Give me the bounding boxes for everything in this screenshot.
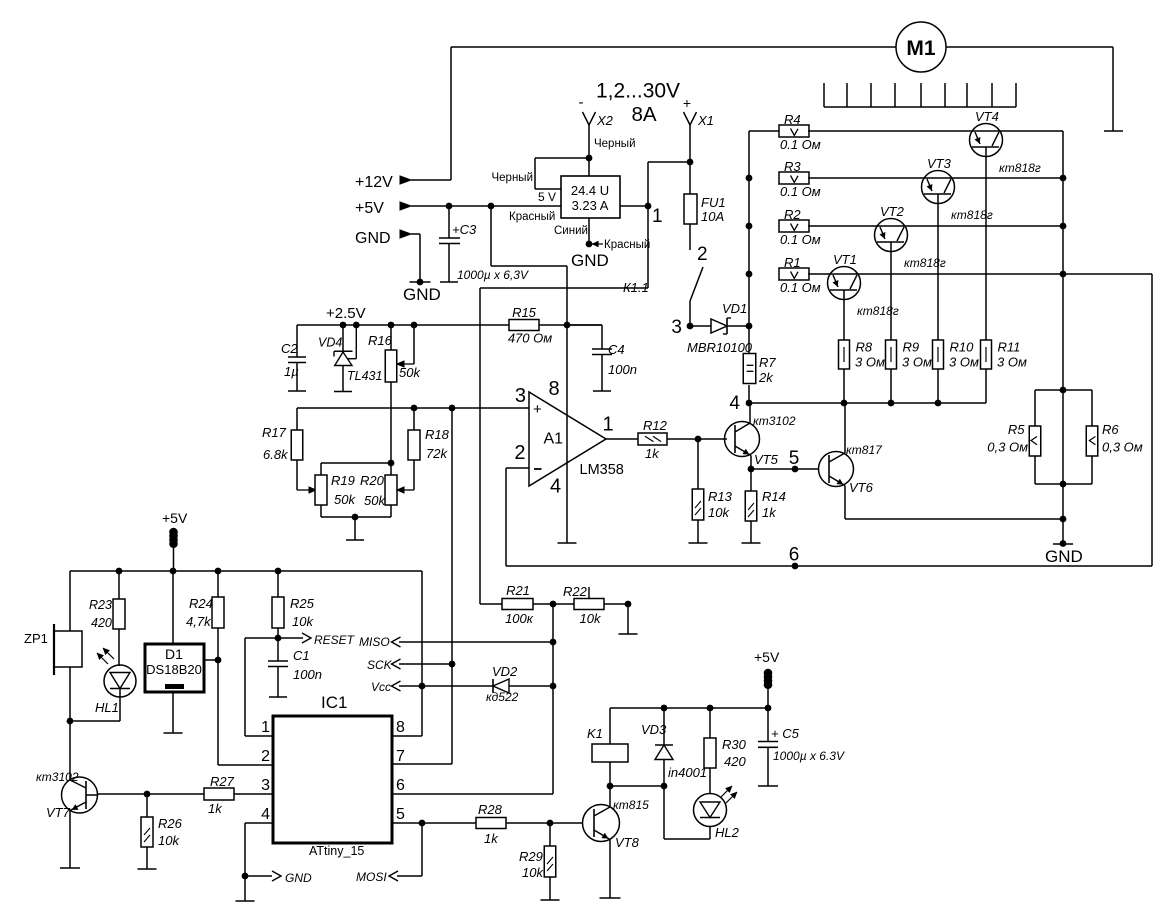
junction X2/black jumper: [586, 155, 593, 162]
svg-text:10k: 10k: [158, 833, 180, 848]
node 5 marker: [792, 466, 799, 473]
transistor VT4 кт818г: [970, 124, 1003, 157]
label C2 value: [284, 364, 299, 379]
buzzer ZP1: [54, 624, 82, 675]
label R26 value 10k: [158, 833, 180, 848]
label 5 V pin: [538, 190, 556, 204]
wire: R21 feed: [480, 603, 502, 605]
motor M1: [896, 22, 946, 72]
label MBR10100: [687, 340, 753, 355]
label R20: [360, 473, 385, 488]
wire: base bus node 4: [749, 402, 986, 404]
label R25: [290, 596, 315, 611]
svg-text:4,7k: 4,7k: [186, 614, 212, 629]
label R26: [158, 816, 183, 831]
wire: node1 riser to X1 top: [648, 162, 690, 206]
svg-text:SCK: SCK: [367, 658, 393, 672]
zener VD4 TL431: [334, 325, 356, 391]
label R4: [784, 112, 801, 127]
ground IC1: [236, 900, 255, 902]
svg-text:GND: GND: [571, 251, 609, 270]
label R3 value 0.1 Ом: [780, 184, 821, 199]
label R24: [189, 596, 213, 611]
junction R28/R29: [547, 820, 554, 827]
wire: R19/R20 top bus: [321, 462, 391, 464]
label R17: [262, 425, 287, 440]
resistor R3 0.1 Ом: [779, 172, 809, 184]
op-amp pin 8 label: [549, 378, 560, 400]
junction rail R24: [215, 568, 222, 575]
junction rail VD4: [340, 322, 347, 329]
node 3 label: [671, 317, 682, 338]
wire: R5/R6 parallel loop bottom: [1035, 456, 1092, 484]
resistor R30 420: [704, 708, 716, 794]
junction pin8 node: [564, 322, 571, 329]
svg-text:1k: 1k: [484, 831, 499, 846]
svg-text:R23: R23: [89, 598, 112, 612]
chassis tab (dead-end bar): [1104, 130, 1123, 132]
svg-text:R8: R8: [856, 340, 873, 355]
svg-text:1k: 1k: [762, 505, 777, 520]
ground R29: [541, 899, 560, 901]
svg-text:8: 8: [396, 719, 405, 736]
label GND under PSU: [571, 251, 609, 270]
junction rail D1: [170, 568, 177, 575]
svg-text:Красный: Красный: [509, 211, 555, 223]
label +5V: [355, 200, 384, 217]
svg-text:LM358: LM358: [580, 462, 624, 478]
inductor bead +5V relay: [764, 669, 773, 708]
ground right bus: [1053, 540, 1073, 547]
junction R13: [695, 436, 702, 443]
svg-text:+5V: +5V: [162, 510, 188, 526]
label C1: [293, 648, 310, 663]
svg-text:ATtiny_15: ATtiny_15: [309, 844, 364, 858]
label C2: [281, 341, 298, 356]
svg-text:Vcc: Vcc: [371, 680, 391, 694]
junction pin4 gnd: [242, 873, 249, 880]
fuse FU1: [684, 194, 697, 224]
resistor R15 470 Ом: [509, 320, 539, 331]
svg-text:3 Ом: 3 Ом: [855, 355, 885, 370]
junction blue-gnd: [586, 241, 593, 248]
wire: relay +5V rail: [610, 707, 768, 709]
wire: left emitter bus (R1-R4): [749, 131, 779, 326]
svg-text:10A: 10A: [701, 209, 724, 224]
label R15 value 470 Ом: [508, 331, 552, 346]
wire: VT3 row: [808, 177, 1063, 179]
svg-text:+12V: +12V: [355, 174, 393, 191]
svg-text:0.1 Ом: 0.1 Ом: [780, 232, 821, 247]
wire: black jumper to 5V sense pin: [535, 158, 589, 189]
resistor R26 10k: [141, 794, 153, 869]
label R25 value 10k: [292, 614, 314, 629]
LED HL2: [694, 786, 738, 827]
svg-text:R7: R7: [759, 355, 776, 370]
terminal X1 (+): [683, 95, 714, 128]
wire: +5V riser to LM358 pin 8 node: [491, 206, 567, 325]
wire: R27 to IC1 pin 3: [234, 793, 273, 795]
svg-text:VT3: VT3: [927, 156, 952, 171]
capacitor C4 100n: [567, 325, 612, 391]
wire: VT1 row: [808, 273, 1063, 275]
label R23: [89, 598, 112, 612]
label R16: [368, 333, 393, 348]
transistor VT7 кт3102: [62, 721, 98, 868]
label R11 value 3 Ом: [997, 355, 1027, 370]
ground VT7: [60, 867, 80, 869]
wire: VT6 emitter to GND node: [845, 518, 1063, 520]
wire: feedback bus node 6: [506, 565, 1152, 567]
junction rail TL431 ref: [353, 322, 360, 329]
svg-text:X1: X1: [697, 113, 714, 128]
svg-text:MOSI: MOSI: [356, 870, 387, 884]
ground VT8: [600, 897, 621, 899]
junction rail VD3: [661, 705, 668, 712]
label VT1: [833, 252, 857, 267]
wire: IC1 pin 8 to +5V riser: [392, 571, 422, 736]
label MISO: [359, 635, 390, 649]
label C3 value: [457, 268, 529, 282]
label R4 value 0.1 Ом: [780, 137, 821, 152]
svg-text:K1: K1: [587, 726, 603, 741]
resistor R1 0.1 Ом: [779, 268, 809, 280]
wire: VT2 row: [808, 225, 1063, 227]
wire: D1 data to R24: [204, 659, 218, 661]
svg-text:1: 1: [261, 719, 270, 736]
svg-text:R16: R16: [368, 333, 393, 348]
svg-text:10k: 10k: [292, 614, 314, 629]
junction rail R25: [275, 568, 282, 575]
svg-text:+ C5: + C5: [771, 726, 800, 741]
label R15: [512, 305, 537, 320]
svg-text:GND: GND: [355, 230, 391, 247]
ground C4: [593, 390, 611, 392]
label R22 value 10k: [580, 611, 602, 626]
svg-text:1µ: 1µ: [284, 364, 299, 379]
junction rail R30: [707, 705, 714, 712]
wire: VD1 cathode to left bus: [727, 325, 749, 327]
svg-text:-: -: [579, 94, 584, 111]
transistor VT3 кт818г: [922, 171, 955, 204]
label 8A: [631, 103, 656, 126]
svg-text:VD1: VD1: [722, 301, 747, 316]
label R6: [1102, 422, 1119, 437]
wire: VD3/HL2 return: [664, 786, 710, 839]
label кт815: [613, 798, 649, 812]
svg-text:10k: 10k: [708, 505, 730, 520]
junction right bus R2 row: [1060, 223, 1067, 230]
wire: MOSI arrow: [389, 823, 422, 881]
resistor R24 4,7k: [212, 571, 224, 660]
wire: VT7 base to R27: [98, 793, 205, 795]
wire: R8 to base bus: [843, 369, 845, 403]
label +12V: [355, 174, 393, 191]
junction ZP1/HL1: [67, 718, 74, 725]
ground R26: [138, 868, 157, 870]
label FU1 10A: [701, 195, 726, 224]
svg-text:R6: R6: [1102, 422, 1119, 437]
label VT5: [754, 452, 779, 467]
diode VD2 кд522: [493, 679, 553, 693]
svg-text:72k: 72k: [426, 446, 448, 461]
label R13 value 10k: [708, 505, 730, 520]
label K1: [587, 726, 603, 741]
LED HL1: [70, 648, 136, 721]
label R5 value: [987, 440, 1028, 455]
resistor R21 100к: [502, 599, 533, 610]
junction R16 bottom: [388, 460, 395, 467]
transistor VT2 кт818г: [875, 219, 908, 252]
svg-text:3: 3: [261, 777, 270, 794]
junction VD3 bottom: [661, 783, 668, 790]
transistor VT1 кт818г: [828, 267, 861, 300]
svg-text:1k: 1k: [208, 801, 223, 816]
svg-text:3 Ом: 3 Ом: [902, 355, 932, 370]
wire: X1 down to fuse: [689, 125, 691, 194]
diode VD1 MBR10100: [711, 318, 731, 334]
label кт3102 (VT5): [753, 414, 796, 428]
svg-text:R9: R9: [903, 340, 920, 355]
resistor R6 0,3 Ом: [1086, 426, 1098, 456]
label R5: [1008, 422, 1025, 437]
svg-text:ZP1: ZP1: [24, 631, 48, 646]
label R9: [903, 340, 920, 355]
label HL1: [95, 700, 119, 715]
junction rail R16: [388, 322, 395, 329]
resistor R27 1k: [204, 788, 234, 800]
ground R22: [619, 633, 638, 635]
label ATtiny_15: [309, 844, 364, 858]
microcontroller IC1 ATtiny_15: [273, 716, 392, 843]
svg-text:100к: 100к: [505, 611, 534, 626]
svg-text:470 Ом: 470 Ом: [508, 331, 552, 346]
label GND input: [355, 230, 391, 247]
label R24 value 4,7k: [186, 614, 212, 629]
svg-text:R20: R20: [360, 473, 385, 488]
label R13: [708, 489, 733, 504]
junction right bus R3 row: [1060, 175, 1067, 182]
label VT8: [615, 835, 640, 850]
svg-text:50k: 50k: [334, 492, 356, 507]
label R14: [762, 489, 786, 504]
svg-text:1k: 1k: [645, 446, 660, 461]
svg-text:A1: A1: [544, 431, 564, 448]
label R18: [425, 427, 450, 442]
wire: IC1 pin 6 riser: [392, 604, 553, 794]
svg-text:кт3102: кт3102: [753, 414, 796, 428]
wire: RESET arrow: [278, 633, 311, 643]
label VT3: [927, 156, 952, 171]
svg-text:FU1: FU1: [701, 195, 726, 210]
capacitor C3 1000u: [439, 206, 460, 282]
junction base bus R9: [888, 400, 895, 407]
svg-text:R22: R22: [563, 584, 588, 599]
ground op-amp pin4: [558, 542, 577, 544]
svg-text:24.4 U: 24.4 U: [571, 183, 609, 198]
label R1: [784, 255, 801, 270]
svg-text:MISO: MISO: [359, 635, 390, 649]
label R28 value 1k: [484, 831, 499, 846]
label VT6: [849, 480, 874, 495]
wire: R17 wiper arrow into R19: [297, 487, 316, 493]
resistor R8 3 Ом: [839, 340, 850, 369]
resistor R13 10k: [692, 439, 704, 543]
label VT4 type кт818г: [999, 161, 1041, 175]
svg-text:R17: R17: [262, 425, 287, 440]
svg-text:2: 2: [261, 748, 270, 765]
terminal arrow +12V: [400, 176, 411, 184]
svg-text:кт818г: кт818г: [904, 256, 946, 270]
op-amp pin 1 label: [603, 414, 614, 436]
wire: R9 to base bus: [890, 369, 892, 403]
junction R5R6 top: [1060, 387, 1067, 394]
label R17 value 6.8k: [263, 447, 289, 462]
label +5V (relay): [754, 649, 780, 665]
junction R24/D1/pin2: [215, 657, 222, 664]
svg-text:R21: R21: [506, 583, 530, 598]
resistor R4 0.1 Ом: [779, 125, 809, 137]
wire: ZP1 to HL1 junction: [69, 667, 71, 721]
ground divider: [346, 539, 364, 541]
label R27 value 1k: [208, 801, 223, 816]
svg-text:R29: R29: [519, 849, 543, 864]
ground C3: [440, 281, 458, 283]
wire: Vcc line: [392, 681, 494, 691]
svg-text:R13: R13: [708, 489, 733, 504]
label R8: [856, 340, 873, 355]
node 1 label: [652, 206, 663, 227]
junction SCK riser: [449, 661, 456, 668]
ground VD4: [334, 391, 352, 393]
capacitor C1 100n: [268, 638, 288, 697]
svg-text:0,3 Ом: 0,3 Ом: [1102, 440, 1143, 455]
label Красный (red +5V wire): [509, 211, 555, 223]
svg-text:4: 4: [261, 806, 270, 823]
junction node 1: [645, 203, 652, 210]
label R18 value 72k: [426, 446, 448, 461]
ground C5: [758, 785, 778, 787]
svg-text:VD2: VD2: [492, 664, 518, 679]
label R30: [722, 737, 747, 752]
junction right bus R1 row: [1060, 271, 1067, 278]
svg-text:4: 4: [550, 476, 561, 498]
IC1 pin 5 label: [396, 806, 405, 823]
label R22: [563, 584, 588, 599]
label R14 value 1k: [762, 505, 777, 520]
wire: top rail to motor M1: [451, 46, 896, 48]
label GND right: [1045, 547, 1083, 566]
svg-text:R28: R28: [478, 802, 503, 817]
svg-text:3 Ом: 3 Ом: [997, 355, 1027, 370]
label VT3 type кт818г: [951, 208, 993, 222]
junction VT7 base R26: [144, 791, 151, 798]
wire: switch to node 3: [689, 301, 691, 326]
label R16 value 50k: [399, 365, 421, 380]
junction RESET node: [275, 635, 282, 642]
svg-text:R19: R19: [331, 473, 355, 488]
wire: R28 to VT8 base: [506, 822, 583, 824]
label R27: [210, 774, 235, 789]
junction +5V riser: [488, 203, 495, 210]
node 5 label: [789, 448, 800, 469]
junction pin3 riser to pin7: [449, 405, 456, 412]
svg-text:IC1: IC1: [321, 693, 347, 712]
svg-text:DS18B20: DS18B20: [146, 662, 202, 677]
svg-text:R10: R10: [950, 340, 975, 355]
label Синий: [554, 225, 588, 237]
wire: R12 to VT5 base: [667, 438, 727, 440]
resistor R16 50k adjustable: [385, 325, 397, 463]
wire: R5/R6 parallel loop top: [1035, 390, 1092, 426]
junction X1/fuse: [687, 159, 694, 166]
svg-text:VT8: VT8: [615, 835, 640, 850]
label C4: [608, 342, 625, 357]
svg-text:50k: 50k: [399, 365, 421, 380]
op-amp pin 2 label: [514, 442, 525, 464]
label SCK: [367, 658, 393, 672]
svg-text:VD4: VD4: [318, 336, 342, 350]
junction base bus R10: [935, 400, 942, 407]
label C5 value: [773, 749, 845, 763]
svg-text:+5V: +5V: [754, 649, 780, 665]
label HL2: [715, 825, 740, 840]
junction node 3: [687, 323, 694, 330]
wire: K1 to VT8 collector: [609, 762, 611, 786]
wire: op-amp pin2 to feedback bus: [506, 468, 529, 566]
svg-text:R30: R30: [722, 737, 747, 752]
wire: VT3 base down to resistor: [937, 194, 939, 340]
terminal arrow GND: [400, 230, 411, 238]
label VD2: [492, 664, 518, 679]
svg-text:R5: R5: [1008, 422, 1025, 437]
label VD3: [641, 722, 667, 737]
label TL431: [347, 369, 382, 383]
label R8 value 3 Ом: [855, 355, 885, 370]
ground D1: [164, 732, 183, 734]
temp sensor D1 DS18B20: [145, 571, 204, 733]
switch K1.1 blade: [690, 267, 703, 301]
label R20 value 50k: [364, 493, 386, 508]
svg-text:R24: R24: [189, 596, 213, 611]
wire: VT5 emitter to VT6 base: [751, 468, 819, 470]
label кт817: [846, 443, 883, 457]
svg-text:4: 4: [729, 393, 740, 414]
label R21 value 100к: [505, 611, 534, 626]
node 2 label: [697, 244, 708, 265]
wire: op-amp output to R12: [606, 438, 638, 440]
wire: R18 wiper arrow into R20: [397, 487, 414, 493]
label R2: [784, 207, 801, 222]
resistor R2 0.1 Ом: [779, 220, 809, 232]
junction VT5 emitter R14: [748, 466, 755, 473]
svg-text:C4: C4: [608, 342, 625, 357]
svg-text:50k: 50k: [364, 493, 386, 508]
svg-text:10k: 10k: [522, 865, 544, 880]
svg-text:8: 8: [549, 378, 560, 400]
svg-text:кт818г: кт818г: [857, 304, 899, 318]
svg-text:К1.1: К1.1: [623, 280, 649, 295]
node 6 label: [789, 545, 800, 566]
resistor R5 0,3 Ом: [1029, 426, 1041, 456]
IC1 pin 4 label: [261, 806, 270, 823]
wire: VT4 row: [808, 130, 1063, 132]
svg-text:420: 420: [91, 616, 112, 630]
svg-text:VD3: VD3: [641, 722, 667, 737]
junction rail R23: [116, 568, 123, 575]
wire: R22 to ground: [604, 604, 628, 634]
IC1 pin 1 label: [261, 719, 270, 736]
